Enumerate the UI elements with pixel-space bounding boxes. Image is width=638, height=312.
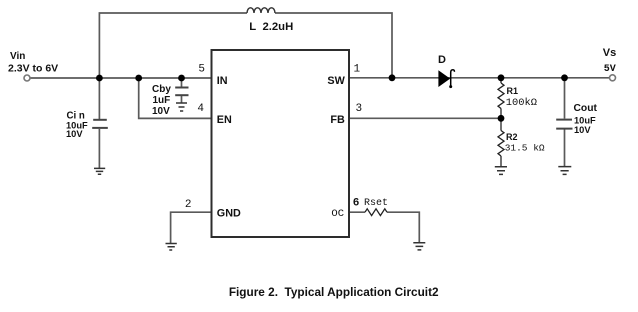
- svg-text:Cby: Cby: [152, 84, 171, 95]
- svg-text:Vs: Vs: [603, 47, 616, 59]
- svg-text:D: D: [438, 54, 446, 66]
- svg-text:1uF: 1uF: [153, 95, 171, 106]
- svg-text:GND: GND: [217, 207, 241, 219]
- svg-text:Rset: Rset: [364, 198, 388, 209]
- svg-text:Vin: Vin: [10, 51, 25, 62]
- svg-text:IN: IN: [217, 75, 228, 87]
- svg-text:10V: 10V: [66, 129, 83, 139]
- svg-text:5V: 5V: [604, 64, 616, 75]
- svg-text:31.5 kΩ: 31.5 kΩ: [505, 143, 545, 154]
- svg-text:FB: FB: [330, 114, 345, 126]
- svg-text:SW: SW: [327, 75, 345, 87]
- svg-text:R1: R1: [507, 86, 519, 96]
- svg-text:R2: R2: [506, 132, 518, 142]
- svg-text:3: 3: [356, 103, 363, 115]
- svg-text:6: 6: [353, 197, 360, 209]
- svg-text:1: 1: [354, 64, 361, 76]
- svg-text:4: 4: [197, 103, 204, 115]
- svg-text:Figure 2. Typical Application: Figure 2. Typical Application Circuit2: [229, 285, 439, 299]
- svg-text:100kΩ: 100kΩ: [506, 97, 537, 109]
- svg-text:2: 2: [185, 199, 192, 211]
- svg-text:EN: EN: [217, 114, 232, 126]
- svg-text:Cout: Cout: [574, 103, 598, 114]
- svg-text:10V: 10V: [152, 106, 170, 117]
- svg-text:L 2.2uH: L 2.2uH: [249, 21, 293, 33]
- svg-text:OC: OC: [331, 208, 344, 220]
- svg-text:5: 5: [198, 64, 205, 76]
- svg-text:2.3V to 6V: 2.3V to 6V: [8, 62, 58, 74]
- svg-text:10uF: 10uF: [574, 115, 596, 125]
- svg-text:10V: 10V: [574, 125, 591, 135]
